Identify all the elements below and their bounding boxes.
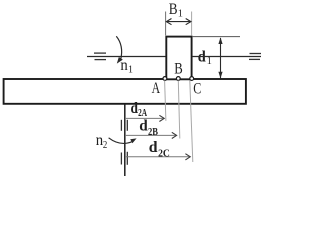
d2B dimension arrow: [125, 132, 177, 138]
lower shaft upper break symbol: [120, 120, 122, 131]
n2 rotation arrow: [109, 138, 137, 144]
d2C dimension arrow: [125, 154, 190, 160]
svg-text:B: B: [174, 61, 183, 78]
upper axis line right segment: [192, 56, 261, 58]
bar (long horizontal body): [4, 79, 246, 104]
B1 dimension arrow: [166, 19, 191, 25]
lower shaft axis line: [124, 104, 126, 176]
extension line from A: [165, 81, 166, 121]
lower shaft lower break symbol: [120, 153, 122, 165]
svg-text:d: d: [131, 100, 139, 117]
B1 left extension line: [165, 12, 167, 36]
node C circle: [190, 77, 194, 81]
B1 right extension line: [191, 12, 193, 36]
svg-text:A: A: [152, 80, 161, 97]
svg-text:2C: 2C: [158, 148, 170, 159]
d2A dimension arrow: [125, 115, 164, 121]
svg-text:2: 2: [103, 140, 107, 151]
svg-text:2B: 2B: [148, 127, 158, 138]
svg-text:d: d: [149, 139, 158, 156]
upper shaft block: [166, 37, 191, 80]
node B circle: [176, 77, 180, 81]
extension line from C: [190, 81, 193, 163]
upper axis left break symbol: [94, 52, 106, 54]
svg-text:1: 1: [178, 9, 183, 20]
block top line right extension: [192, 36, 240, 38]
d1 dimension arrow: [218, 37, 222, 78]
svg-text:n: n: [120, 57, 127, 74]
node A circle: [163, 77, 167, 81]
n1 rotation arrow: [116, 36, 123, 63]
extension line from B: [178, 81, 180, 139]
svg-text:1: 1: [207, 56, 212, 67]
upper axis line left segment: [87, 56, 166, 58]
svg-text:B: B: [169, 1, 178, 18]
svg-text:d: d: [198, 49, 206, 66]
svg-text:d: d: [139, 118, 148, 135]
upper axis right break symbol: [250, 53, 262, 55]
svg-text:C: C: [193, 80, 201, 97]
svg-text:1: 1: [128, 64, 133, 75]
